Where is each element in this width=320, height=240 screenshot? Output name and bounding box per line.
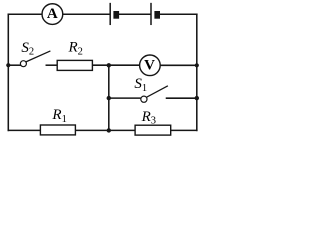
svg-text:A: A xyxy=(47,6,58,22)
svg-text:V: V xyxy=(144,58,155,74)
